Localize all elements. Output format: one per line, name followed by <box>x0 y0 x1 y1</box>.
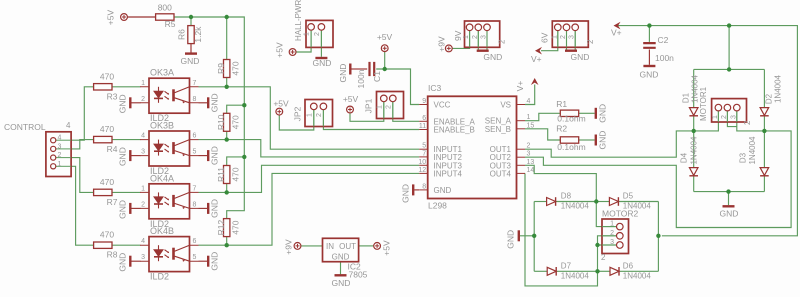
IC3 pin 4 VS <box>517 104 526 106</box>
svg-text:D2: D2 <box>765 93 774 104</box>
wire conn SV1 pin1 to +9V <box>452 31 469 48</box>
svg-text:4: 4 <box>141 133 145 140</box>
svg-text:800: 800 <box>158 3 172 13</box>
svg-text:7805: 7805 <box>349 270 368 280</box>
svg-text:8: 8 <box>422 183 426 190</box>
svg-text:R2: R2 <box>556 124 567 134</box>
ground (OK4B pin3) <box>129 256 131 267</box>
svg-text:VS: VS <box>500 101 511 110</box>
svg-text:8: 8 <box>193 96 197 103</box>
svg-text:D1: D1 <box>682 92 691 103</box>
capacitor C1 100n <box>370 62 375 76</box>
svg-text:4: 4 <box>141 238 145 245</box>
svg-text:2: 2 <box>386 105 393 109</box>
wire OK3B collector node (R10 bottom, pin6 to INPUT2) <box>199 140 420 157</box>
svg-text:2: 2 <box>316 113 323 117</box>
wire OUT3 (pin13) to MOTOR2 pin1 node <box>525 165 596 201</box>
svg-text:3: 3 <box>569 35 576 39</box>
IC3 pin 10 INPUT3 <box>419 164 428 166</box>
wire OUT1 (pin2) to MOTOR1 left node <box>525 131 694 157</box>
wire CONTROL pin1 to R8 <box>71 166 93 245</box>
svg-text:6: 6 <box>193 133 197 140</box>
supply V+ (top rail) <box>614 22 621 30</box>
svg-text:4: 4 <box>527 98 531 105</box>
wire conn SV2 pin1 to V+ <box>541 31 558 51</box>
svg-text:GND: GND <box>506 230 516 249</box>
svg-text:GND: GND <box>118 94 128 113</box>
IC3 pin 14 OUT4 <box>517 172 526 174</box>
svg-text:OUT4: OUT4 <box>490 169 512 178</box>
diode D8 1N4004 <box>547 198 556 206</box>
resistor R1 0.1ohm <box>560 110 578 116</box>
svg-text:GND: GND <box>332 253 350 262</box>
svg-text:2: 2 <box>527 143 531 150</box>
wire OK4A collector node (R11 bottom, pin7 to INPUT3) <box>199 165 420 192</box>
wire D6 row <box>598 270 611 272</box>
svg-text:L298: L298 <box>428 201 447 211</box>
node junction at 226.7,192.4 <box>225 190 229 194</box>
svg-text:MOTOR2: MOTOR2 <box>602 209 638 219</box>
wire OK3A collector node (R9 bottom, pin7 to INPUT1) <box>199 87 420 149</box>
wire IC3 SEN_A pin1 to R1 <box>525 113 560 120</box>
ground (MOTOR1 bridge) <box>723 205 735 207</box>
svg-text:6: 6 <box>193 238 197 245</box>
svg-text:+5V: +5V <box>275 42 285 58</box>
wire R6 top to +5V net <box>190 17 192 25</box>
svg-text:GND: GND <box>598 104 608 123</box>
svg-text:3: 3 <box>58 143 62 150</box>
svg-text:2: 2 <box>586 39 595 44</box>
svg-text:R8: R8 <box>107 250 118 260</box>
ground (HALL-PWR pin2) <box>315 57 327 59</box>
svg-text:GND: GND <box>210 252 220 271</box>
svg-text:4: 4 <box>58 135 62 142</box>
svg-text:GND: GND <box>640 70 659 80</box>
wire OK4B pin5 to GND <box>199 260 208 262</box>
svg-text:GND: GND <box>210 146 220 165</box>
svg-text:+5V: +5V <box>377 32 393 42</box>
svg-text:JP2: JP2 <box>293 106 303 121</box>
svg-text:+5V: +5V <box>382 240 392 256</box>
wire MOTOR2 left GND column <box>533 202 535 272</box>
wire IC2 GND <box>340 262 342 275</box>
wire R4 to OK3B pin4 <box>112 139 140 141</box>
ground (OK4B pin5) <box>207 256 209 267</box>
diode D4 1N4004 <box>689 168 698 176</box>
node junction at 597.5,245 <box>595 243 599 247</box>
svg-text:HALL-PWR: HALL-PWR <box>294 0 303 41</box>
svg-text:1: 1 <box>551 35 558 39</box>
resistor R4 470 <box>94 136 112 142</box>
wire IC3 GND pin8 to GND <box>414 189 419 191</box>
wire C2 bottom to GND <box>648 50 650 65</box>
resistor R6 1.2k <box>188 26 194 44</box>
IC3 pin 6 ENABLE_A <box>419 120 428 122</box>
svg-text:2: 2 <box>141 96 145 103</box>
svg-text:GND: GND <box>720 209 739 219</box>
svg-text:1: 1 <box>304 32 311 36</box>
node junction at 244.3,105.2 <box>242 103 246 107</box>
svg-text:C2: C2 <box>658 35 669 45</box>
ground (OK3A pin8) <box>207 97 209 108</box>
ground (R6) <box>185 52 197 54</box>
wire IC2 +9V input <box>301 245 322 247</box>
svg-text:VCC: VCC <box>434 101 451 110</box>
svg-text:R3: R3 <box>107 91 118 101</box>
svg-text:OK4B: OK4B <box>150 226 174 236</box>
svg-text:4: 4 <box>66 121 71 130</box>
node junction at 226.7,245.2 <box>225 243 229 247</box>
IC3 pin 11 ENABLE_B <box>419 129 428 131</box>
supply +5V (C1 node) <box>381 45 388 52</box>
ground (OK3B pin5) <box>207 150 209 161</box>
svg-text:3: 3 <box>141 149 145 156</box>
svg-text:3: 3 <box>481 35 488 39</box>
IC3 pin 8 GND <box>419 189 428 191</box>
svg-text:5: 5 <box>422 143 426 150</box>
svg-text:1N4004: 1N4004 <box>623 272 652 281</box>
resistor R12 470 <box>224 219 230 237</box>
wire D4 column <box>693 131 695 167</box>
svg-text:GND: GND <box>598 131 608 150</box>
resistor R3 470 <box>94 84 112 90</box>
node junction at 226.7,86.8 <box>225 85 229 89</box>
wire OK4B collector node (R12 bottom, pin6 to INPUT4) <box>199 173 420 245</box>
supply +5V (JP2) <box>276 108 283 115</box>
diode D3 1N4004 <box>760 168 769 176</box>
svg-text:R10: R10 <box>216 114 226 130</box>
svg-text:R12: R12 <box>216 220 226 236</box>
resistor R2 0.1ohm <box>560 137 578 143</box>
wire JP2 pin1 to +5V <box>279 110 314 130</box>
ground (OK3B pin3) <box>129 150 131 161</box>
svg-text:2: 2 <box>721 115 728 119</box>
wire MOTOR2 pin1 to top center node <box>596 202 616 227</box>
svg-text:11: 11 <box>419 123 426 130</box>
svg-text:9: 9 <box>422 98 426 105</box>
svg-text:ILD2: ILD2 <box>150 272 169 282</box>
wire MOTOR1 bottom rail <box>694 191 765 193</box>
node junction at 729.1,69.4 <box>727 67 731 71</box>
wire R7 to OK4A pin1 <box>112 191 140 193</box>
svg-text:470: 470 <box>230 115 240 129</box>
IC3 pin 7 INPUT2 <box>419 156 428 158</box>
wire C2 tap from V+ rail <box>648 26 650 42</box>
ground (OK3A pin2) <box>129 97 131 108</box>
svg-text:6V: 6V <box>540 32 550 43</box>
wire V+ rail top right <box>618 26 798 236</box>
wire OK4B pin3 to GND <box>132 260 141 262</box>
svg-text:470: 470 <box>100 177 114 187</box>
svg-text:0.1ohm: 0.1ohm <box>557 142 585 152</box>
node junction at 693.7,130.9 <box>692 129 696 133</box>
wire OK4A pin8 to GND <box>199 207 208 209</box>
IC3 pin 12 INPUT4 <box>419 172 428 174</box>
svg-text:OUT: OUT <box>339 242 356 251</box>
svg-text:GND: GND <box>210 199 220 218</box>
supply +5V (JP1) <box>347 106 354 113</box>
svg-text:SEN_B: SEN_B <box>485 125 511 134</box>
svg-text:MOTOR1: MOTOR1 <box>699 86 708 121</box>
svg-text:GND: GND <box>118 200 128 219</box>
svg-text:V+: V+ <box>515 81 525 92</box>
supply +9V (SV1) <box>445 45 452 52</box>
svg-text:13: 13 <box>527 159 535 166</box>
svg-text:470: 470 <box>100 71 114 81</box>
wire D8 row <box>534 201 546 203</box>
svg-text:470: 470 <box>230 61 240 75</box>
node junction at 244.3,156.9 <box>242 155 246 159</box>
wire HALL-PWR pin2 to GND <box>320 31 322 57</box>
svg-text:ENABLE_B: ENABLE_B <box>434 126 475 135</box>
node junction at 658.4,235.8 <box>656 234 660 238</box>
wire conn SV1 pins2,3 to GND <box>477 31 479 50</box>
wire C1 left plate to GND <box>352 68 368 70</box>
wire D2 column <box>763 69 765 107</box>
wire CONTROL pin2 to R7 <box>71 158 93 193</box>
svg-text:1.2k: 1.2k <box>193 26 203 43</box>
svg-text:2: 2 <box>560 35 567 39</box>
svg-text:6: 6 <box>422 115 426 122</box>
svg-text:D7: D7 <box>561 261 572 270</box>
wire D1 column <box>693 69 695 107</box>
svg-text:V+: V+ <box>531 54 542 64</box>
wire MOTOR1 top rail <box>694 68 765 70</box>
wire MOTOR1 pin1 to left node <box>694 111 719 131</box>
svg-text:100n: 100n <box>655 53 674 63</box>
svg-text:GND: GND <box>118 253 128 272</box>
svg-text:GND: GND <box>338 64 348 83</box>
svg-text:2: 2 <box>498 39 507 44</box>
svg-text:9V: 9V <box>453 30 463 41</box>
svg-text:GND: GND <box>434 186 452 195</box>
svg-text:0.1ohm: 0.1ohm <box>557 114 585 124</box>
supply +5V (IC2 out) <box>374 243 381 250</box>
wire CONTROL pin3 to R4 <box>71 140 93 149</box>
svg-text:C1: C1 <box>372 71 382 82</box>
node junction at 728.5,191.6 <box>726 189 730 193</box>
svg-text:R1: R1 <box>556 99 567 109</box>
IC3 pin 15 SEN_B <box>517 128 526 130</box>
ground (OK4A pin2) <box>129 203 131 214</box>
wire CONTROL pin4 to R3 <box>71 87 93 140</box>
svg-text:GND: GND <box>118 147 128 166</box>
wire R11 top jog to +5V rail <box>227 157 245 165</box>
resistor R10 470 <box>224 113 230 131</box>
svg-text:2: 2 <box>610 230 614 237</box>
wire D3 column <box>763 131 765 167</box>
node junction at 597.5,271.3 <box>595 269 599 273</box>
svg-text:5: 5 <box>193 254 197 261</box>
wire R3 to OK3A pin1 <box>112 86 140 88</box>
wire OK3B pin5 to GND <box>199 155 208 157</box>
ground (SV1) <box>477 50 489 52</box>
svg-text:OK3B: OK3B <box>150 121 174 131</box>
svg-text:INPUT4: INPUT4 <box>434 169 463 178</box>
wire R9 top to +5V rail <box>226 17 228 59</box>
svg-text:1: 1 <box>712 115 719 119</box>
wire OUT4 (pin14) to MOTOR2 pins2/3 node <box>525 173 598 286</box>
svg-text:2: 2 <box>472 35 479 39</box>
node junction at 729.1,25.6 <box>727 23 731 27</box>
IC3 pin 2 OUT1 <box>517 148 526 150</box>
svg-text:3: 3 <box>141 254 145 261</box>
node junction at 226.7,17 <box>225 15 229 19</box>
wire MOTOR1 bridge feed from V+ rail <box>728 26 730 70</box>
supply V+ (SV2 pin1) <box>535 47 542 55</box>
node junction at 534.2,235.8 <box>532 234 536 238</box>
resistor R11 470 <box>224 166 230 184</box>
wire IC3 SEN_B pin15 to R2 <box>525 129 560 140</box>
svg-text:470: 470 <box>100 124 114 134</box>
wire C1 net: +5V, C1 right plate, IC3 VCC <box>384 52 386 69</box>
svg-text:7: 7 <box>193 80 197 87</box>
wire R10 top jog to +5V rail <box>227 105 245 113</box>
supply +5V (HALL-PWR) <box>289 49 296 56</box>
svg-text:8: 8 <box>193 201 197 208</box>
svg-text:D8: D8 <box>561 192 572 201</box>
wire MOTOR1 pins2,3 to right node <box>727 111 736 127</box>
svg-text:OK3A: OK3A <box>150 68 174 78</box>
wire JP2 pin2 to IC3 ENABLE_B <box>323 110 419 130</box>
resistor R5 800 <box>156 14 174 20</box>
svg-text:15: 15 <box>527 122 535 129</box>
svg-text:5: 5 <box>193 149 197 156</box>
svg-text:1: 1 <box>610 221 614 228</box>
IC3 pin 3 OUT2 <box>517 156 526 158</box>
svg-text:OK4A: OK4A <box>150 173 174 183</box>
wire IC2 output to +5V <box>359 245 374 247</box>
svg-text:7: 7 <box>193 185 197 192</box>
svg-text:1N4004: 1N4004 <box>561 202 590 211</box>
ground (OK4A pin8) <box>207 203 209 214</box>
wire HALL-PWR pin1 to +5V <box>296 31 311 52</box>
svg-text:470: 470 <box>100 230 114 240</box>
ground (MOTOR2 bridge) <box>518 230 520 241</box>
resistor R7 470 <box>94 189 112 195</box>
wire JP1 pin2 to IC3 ENABLE_A <box>393 102 419 121</box>
svg-text:2: 2 <box>314 32 321 36</box>
svg-text:3: 3 <box>730 115 737 119</box>
capacitor C2 100n <box>643 43 656 48</box>
diode D7 1N4004 <box>547 267 556 275</box>
svg-text:1: 1 <box>141 80 145 87</box>
svg-text:R11: R11 <box>216 167 226 182</box>
svg-text:GND: GND <box>210 93 220 112</box>
svg-text:R6: R6 <box>177 29 187 40</box>
node junction at 226.7,139.6 <box>225 137 229 141</box>
svg-text:12: 12 <box>418 167 426 174</box>
svg-text:GND: GND <box>571 52 590 62</box>
wire R2 right to GND <box>579 139 595 141</box>
diode D5 1N4004 <box>609 198 618 206</box>
wire OK3B pin3 to GND <box>132 155 141 157</box>
svg-text:2: 2 <box>601 253 606 262</box>
svg-text:10: 10 <box>418 159 426 166</box>
wire D7 row <box>534 270 547 272</box>
wire R6 bottom to GND <box>190 44 192 53</box>
svg-text:+9V: +9V <box>284 239 294 255</box>
wire MOTOR1 bottom rail to GND <box>728 192 730 206</box>
resistor R8 470 <box>94 242 112 248</box>
wire conn SV2 pins2,3 to GND <box>566 31 568 50</box>
svg-text:1N4004: 1N4004 <box>690 136 699 165</box>
svg-text:+9V: +9V <box>437 36 447 52</box>
svg-text:14: 14 <box>527 167 535 174</box>
svg-text:2: 2 <box>743 120 752 125</box>
diode D2 1N4004 <box>760 108 769 116</box>
svg-text:GND: GND <box>483 52 502 62</box>
ground (R1) <box>595 108 597 119</box>
ground (SV2) <box>565 50 577 52</box>
wire net +5V top rail (R5 to R9/R10/R11/R12 pullup rail) <box>127 16 155 18</box>
wire D5 row <box>596 201 609 203</box>
wire OK4A pin2 to GND <box>132 207 141 209</box>
svg-text:470: 470 <box>230 220 240 234</box>
svg-text:JP1: JP1 <box>364 98 374 113</box>
wire OK3A pin2 to GND <box>132 102 141 104</box>
wire JP1 pin1 to +5V <box>350 102 384 121</box>
wire MOTOR2 pin2,pin3 to bottom center node <box>598 236 617 271</box>
IC3 pin 5 INPUT1 <box>419 148 428 150</box>
wire R8 to OK4B pin4 <box>112 244 140 246</box>
svg-text:R9: R9 <box>216 63 226 74</box>
svg-text:D3: D3 <box>739 152 748 163</box>
ground (R2) <box>595 135 597 146</box>
svg-text:D6: D6 <box>623 261 634 270</box>
node junction at 384.7,69 <box>383 67 387 71</box>
svg-text:1N4004: 1N4004 <box>561 272 590 281</box>
svg-text:100n: 100n <box>356 69 366 88</box>
svg-text:+5V: +5V <box>343 94 359 104</box>
svg-text:1: 1 <box>306 113 313 117</box>
supply +5V (top left) <box>121 14 128 21</box>
resistor R9 470 <box>224 60 230 78</box>
ground (IC3 pin8) <box>412 184 414 195</box>
svg-text:1: 1 <box>376 105 383 109</box>
svg-text:R5: R5 <box>165 19 176 29</box>
wire MOTOR2 right V+ column <box>657 202 659 272</box>
svg-text:R7: R7 <box>107 197 118 207</box>
ground (IC2) <box>335 274 347 276</box>
svg-text:1: 1 <box>141 185 145 192</box>
svg-text:1: 1 <box>527 114 531 121</box>
supply V+ (IC3 VS) <box>531 78 539 85</box>
svg-text:1: 1 <box>58 161 62 168</box>
ground (C1) <box>349 64 351 75</box>
svg-text:IN: IN <box>326 242 334 251</box>
diode D1 1N4004 <box>689 108 698 116</box>
svg-text:3: 3 <box>610 239 614 246</box>
IC3 pin 13 OUT3 <box>517 164 526 166</box>
svg-text:V+: V+ <box>611 28 622 38</box>
svg-text:1N4004: 1N4004 <box>748 136 757 165</box>
svg-text:2: 2 <box>58 152 62 159</box>
svg-text:CONTROL: CONTROL <box>4 122 46 132</box>
svg-text:7: 7 <box>422 150 426 157</box>
svg-text:D5: D5 <box>623 192 634 201</box>
wire IC3 VS pin4 to V+ arrow <box>525 85 535 105</box>
svg-text:GND: GND <box>332 278 351 288</box>
node junction at 596.3,201.5 <box>594 199 598 203</box>
wire OK3A pin8 to GND <box>199 102 208 104</box>
svg-text:1: 1 <box>463 35 470 39</box>
svg-text:D4: D4 <box>680 152 689 163</box>
svg-text:+5V: +5V <box>273 99 289 109</box>
svg-text:GND: GND <box>181 56 200 66</box>
svg-text:470: 470 <box>230 167 240 181</box>
ground (C2) <box>643 65 655 67</box>
